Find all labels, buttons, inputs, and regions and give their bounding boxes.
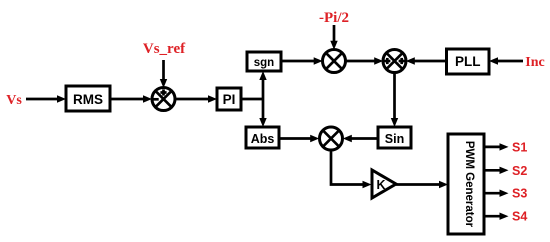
- summing junction 2: [383, 50, 406, 73]
- wire sgn to multiplier 1: [281, 57, 323, 64]
- block RMS: [66, 86, 110, 111]
- block PI: [217, 88, 241, 110]
- wire multiplier 1 to summing junction 2: [345, 57, 383, 64]
- svg-text:PLL: PLL: [455, 54, 481, 69]
- wire output S4: [484, 213, 509, 220]
- summing junction 1: [152, 88, 175, 111]
- svg-text:RMS: RMS: [73, 92, 103, 107]
- wire Sin to multiplier 2: [343, 135, 378, 142]
- block PWM Generator: [448, 134, 484, 234]
- svg-text:S4: S4: [512, 210, 527, 224]
- wire output S1: [484, 143, 509, 150]
- svg-text:Abs: Abs: [251, 132, 275, 146]
- gain K triangle: [372, 170, 396, 198]
- svg-text:Vs: Vs: [6, 93, 22, 108]
- wire RMS to summing junction 1: [110, 95, 152, 102]
- wire Abs to multiplier 2: [279, 135, 319, 142]
- svg-text:K: K: [376, 178, 385, 192]
- svg-text:S2: S2: [512, 164, 527, 178]
- wire Inc to PLL: [489, 57, 523, 64]
- wire PLL to summing junction 2: [406, 57, 446, 64]
- wire -Pi/2 into multiplier 1: [330, 25, 337, 50]
- wire summing junction 2 down to Sin: [391, 72, 398, 127]
- wire multiplier 2 to gain K: [331, 150, 372, 188]
- svg-text:Vs_ref: Vs_ref: [143, 41, 186, 57]
- block sgn: [247, 52, 281, 71]
- wire gain K to PWM Generator: [396, 181, 448, 188]
- wire Vs to RMS: [26, 95, 66, 102]
- svg-text:Inc: Inc: [525, 55, 544, 70]
- multiplier 2: [320, 127, 343, 150]
- wire summing junction 1 to PI: [175, 95, 217, 102]
- wire PI to branch node: [241, 98, 263, 101]
- block Abs: [246, 127, 279, 148]
- wire branch vertical to sgn and Abs: [259, 71, 266, 127]
- svg-text:Sin: Sin: [385, 132, 404, 146]
- multiplier 1: [323, 50, 346, 73]
- svg-text:PI: PI: [223, 92, 236, 107]
- svg-text:sgn: sgn: [254, 57, 274, 69]
- svg-text:PWM Generator: PWM Generator: [463, 141, 475, 228]
- svg-text:-Pi/2: -Pi/2: [319, 10, 349, 26]
- wire output S2: [484, 167, 509, 174]
- svg-text:S1: S1: [512, 140, 527, 154]
- block Sin: [378, 127, 411, 148]
- svg-text:S3: S3: [512, 187, 527, 201]
- wire Vs_ref into summing junction 1: [160, 60, 167, 88]
- wire output S3: [484, 190, 509, 197]
- block PLL: [447, 49, 490, 74]
